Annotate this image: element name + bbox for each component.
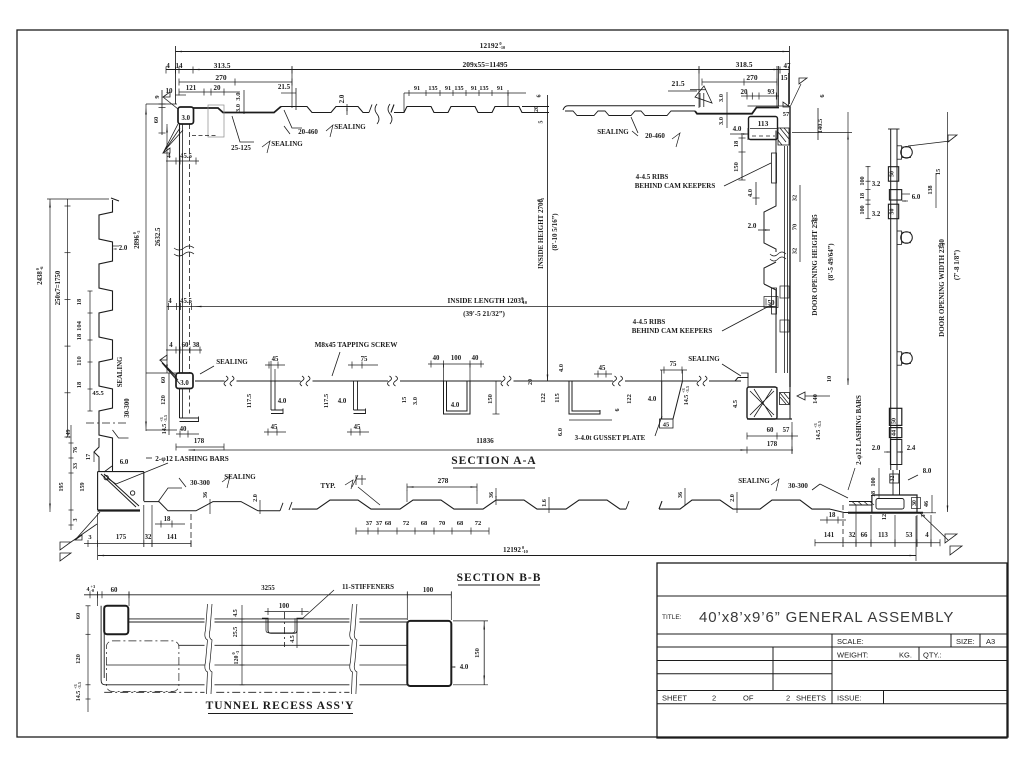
svg-text:1.6: 1.6 (541, 499, 548, 507)
svg-text:150: 150 (487, 394, 494, 404)
svg-text:SEALING: SEALING (271, 140, 303, 148)
svg-text:4.0: 4.0 (558, 364, 565, 372)
svg-text:36: 36 (202, 492, 209, 498)
svg-text:4.0: 4.0 (338, 398, 347, 405)
svg-text:(39'-5 21/32”): (39'-5 21/32”) (463, 310, 505, 318)
top wall corrugation group 2 (391, 105, 549, 113)
svg-text:140: 140 (812, 394, 819, 404)
svg-text:3.0: 3.0 (180, 380, 189, 387)
tunnel lower line (106, 664, 407, 666)
svg-text:12: 12 (881, 514, 888, 520)
svg-text:100: 100 (279, 603, 290, 610)
svg-text:68: 68 (421, 520, 428, 527)
bottom right sill fitting (747, 387, 777, 419)
svg-text:3.0: 3.0 (182, 115, 191, 122)
svg-text:72: 72 (475, 520, 482, 527)
svg-text:2-φ12 LASHING BARS: 2-φ12 LASHING BARS (155, 455, 229, 463)
hinge 3 (897, 352, 902, 365)
svg-text:70: 70 (439, 520, 446, 527)
svg-text:INSIDE HEIGHT 2700: INSIDE HEIGHT 2700 (537, 199, 545, 269)
title block frame (657, 563, 1007, 738)
svg-text:141: 141 (167, 534, 178, 541)
svg-text:100: 100 (423, 587, 434, 594)
inside height extension crossing wall (547, 95, 549, 381)
svg-text:60: 60 (160, 377, 167, 384)
svg-text:4.0: 4.0 (733, 125, 742, 133)
svg-text:175: 175 (116, 534, 127, 541)
corner floor step (144, 502, 280, 511)
svg-text:A3: A3 (986, 637, 995, 646)
svg-text:45: 45 (599, 365, 606, 372)
hinge 1 (897, 146, 902, 159)
svg-text:2.0: 2.0 (252, 494, 259, 502)
svg-text:47: 47 (784, 62, 792, 70)
svg-text:10: 10 (826, 376, 833, 383)
top wall corrugation group 1 (281, 107, 369, 113)
svg-text:SEALING: SEALING (688, 355, 720, 363)
svg-text:2.0: 2.0 (748, 222, 757, 230)
svg-text:120: 120 (160, 395, 167, 405)
svg-text:270: 270 (215, 73, 227, 82)
weld arrow at header seam (690, 89, 706, 91)
svg-text:2.0: 2.0 (339, 94, 346, 103)
side wall into corner (94, 438, 113, 471)
svg-text:37: 37 (366, 520, 373, 527)
svg-text:15: 15 (935, 169, 942, 175)
svg-text:SECTION A-A: SECTION A-A (451, 455, 536, 467)
svg-text:113: 113 (758, 119, 769, 128)
svg-text:3.0: 3.0 (718, 94, 725, 102)
corner diagonal strut (101, 474, 139, 507)
svg-text:40: 40 (433, 355, 440, 362)
top wall group 3 double line (563, 106, 695, 110)
svg-text:SECTION B-B: SECTION B-B (457, 572, 542, 584)
dashdot thru side wall (86, 422, 128, 424)
svg-text:SEALING: SEALING (334, 123, 366, 131)
svg-text:53: 53 (906, 532, 913, 539)
door jamb outer line (789, 108, 791, 388)
cam keeper bracket upper (772, 153, 777, 183)
svg-text:178: 178 (767, 441, 778, 448)
svg-text:135: 135 (454, 85, 463, 92)
gusset trapezoid (662, 381, 683, 419)
dim 100 stiffener (265, 611, 309, 613)
svg-text:SEALING: SEALING (597, 128, 629, 136)
svg-text:(8'-5 49/64”): (8'-5 49/64”) (827, 243, 835, 281)
svg-text:18: 18 (870, 491, 877, 497)
svg-text:68: 68 (457, 520, 464, 527)
svg-text:45.5: 45.5 (180, 298, 192, 305)
svg-text:SEALING: SEALING (216, 358, 248, 366)
svg-text:4: 4 (168, 298, 172, 305)
svg-text:2632.5: 2632.5 (155, 227, 162, 246)
svg-text:3.0: 3.0 (235, 104, 242, 112)
svg-text:18: 18 (829, 512, 836, 519)
svg-text:15: 15 (401, 396, 408, 403)
svg-text:15: 15 (781, 74, 789, 82)
svg-text:4: 4 (167, 153, 171, 160)
right corner sill hatch (849, 502, 872, 506)
svg-text:4: 4 (925, 532, 929, 539)
wall break marks top (375, 104, 379, 124)
svg-text:122: 122 (540, 393, 547, 403)
dim 250x7=1750 (67, 199, 69, 437)
dim 150 right box (483, 621, 485, 685)
svg-text:4-4.5 RIBS: 4-4.5 RIBS (633, 318, 666, 326)
overall bottom dim 12192 (98, 555, 916, 557)
svg-text:-10: -10 (522, 549, 529, 554)
svg-text:91: 91 (445, 85, 451, 92)
svg-text:BEHIND CAM KEEPERS: BEHIND CAM KEEPERS (635, 182, 716, 190)
svg-text:25-125: 25-125 (231, 144, 251, 152)
svg-text:2.0: 2.0 (119, 245, 128, 252)
tunnel top dim line (84, 594, 451, 596)
door sill step (709, 373, 748, 381)
svg-text:60: 60 (767, 427, 774, 434)
svg-text:45: 45 (663, 422, 670, 429)
door opening width dim line (947, 112, 949, 512)
svg-text:57: 57 (783, 427, 790, 434)
bottom corner fitting box 3.0 (176, 373, 193, 389)
svg-text:38: 38 (193, 342, 200, 349)
svg-text:18: 18 (164, 516, 171, 523)
svg-text:100: 100 (859, 176, 866, 185)
svg-text:3.0: 3.0 (718, 117, 725, 125)
svg-text:21.5: 21.5 (278, 83, 291, 91)
svg-text:57: 57 (783, 111, 790, 118)
hinge 1 weld leader (908, 141, 950, 146)
svg-text:318.5: 318.5 (736, 60, 753, 69)
bottom rail below box (179, 389, 181, 419)
svg-text:20: 20 (528, 379, 534, 385)
corner fitting box (98, 472, 144, 510)
svg-text:14.5: 14.5 (816, 430, 822, 441)
section B-B corrugation (292, 500, 626, 509)
svg-text:3255: 3255 (261, 585, 275, 592)
hinge strip bars (890, 129, 892, 390)
svg-text:11836: 11836 (476, 437, 494, 445)
svg-text:17: 17 (85, 454, 92, 460)
svg-text:50: 50 (890, 171, 896, 177)
svg-text:117.5: 117.5 (246, 393, 253, 408)
svg-text:TUNNEL RECESS ASS'Y: TUNNEL RECESS ASS'Y (206, 700, 355, 712)
corner rivets (104, 475, 108, 479)
svg-text:195: 195 (58, 482, 65, 491)
section B-B start tick (289, 502, 292, 510)
svg-text:32: 32 (792, 195, 799, 202)
tunnel left corner casting (104, 606, 128, 635)
svg-text:40’x8’x9’6” GENERAL ASSEMBLY: 40’x8’x9’6” GENERAL ASSEMBLY (699, 609, 954, 626)
sealing 25-125 label (232, 116, 254, 142)
svg-text:3.0: 3.0 (235, 92, 242, 100)
svg-text:SIZE:: SIZE: (956, 637, 975, 646)
dim 121 20 row left (179, 91, 240, 93)
svg-text:11-STIFFENERS: 11-STIFFENERS (342, 583, 394, 591)
post break marks (174, 246, 194, 256)
svg-text:91: 91 (414, 85, 420, 92)
svg-text:250x7=1750: 250x7=1750 (55, 270, 62, 305)
tunnel right box (407, 621, 451, 686)
tunnel hidden dashdot rect (106, 641, 178, 692)
svg-text:115: 115 (554, 393, 561, 403)
svg-text:209x55=11495: 209x55=11495 (462, 60, 507, 69)
strip box 50 upper (888, 167, 898, 182)
svg-text:18: 18 (76, 333, 83, 340)
svg-text:150: 150 (474, 648, 481, 658)
svg-text:18: 18 (859, 193, 866, 199)
svg-text:DOOR OPENING HEIGHT 2585: DOOR OPENING HEIGHT 2585 (811, 214, 819, 316)
svg-text:135: 135 (428, 85, 437, 92)
jamb small plates (780, 286, 789, 298)
svg-text:21.5: 21.5 (671, 79, 684, 88)
dim 14.5 right sill (813, 420, 822, 440)
title block h-lines (657, 595, 1007, 597)
hinge bar lower part (890, 390, 892, 470)
svg-text:DOOR OPENING WIDTH 2340: DOOR OPENING WIDTH 2340 (938, 239, 946, 337)
svg-text:141: 141 (824, 532, 835, 539)
svg-text:14.5: 14.5 (162, 424, 168, 435)
floor channel A (271, 381, 283, 414)
svg-text:BEHIND CAM KEEPERS: BEHIND CAM KEEPERS (632, 327, 713, 335)
svg-text:117.5: 117.5 (323, 393, 330, 408)
labels 30 46 3 (912, 498, 921, 509)
weld flags right corner (920, 513, 948, 540)
tunnel top rails (128, 618, 407, 620)
svg-text:100: 100 (451, 355, 462, 362)
svg-text:150: 150 (733, 162, 740, 172)
svg-text:100: 100 (859, 205, 866, 214)
svg-text:6.0: 6.0 (120, 459, 129, 466)
svg-text:70: 70 (792, 224, 799, 231)
svg-text:SEALING: SEALING (117, 356, 124, 387)
svg-text:75: 75 (670, 361, 677, 368)
dim 278 (407, 486, 477, 488)
svg-text:6.0: 6.0 (912, 194, 921, 201)
wave into right corner (830, 509, 849, 512)
svg-text:33: 33 (72, 463, 79, 469)
svg-text:2896: 2896 (134, 235, 141, 249)
svg-text:122: 122 (626, 394, 633, 404)
svg-text:4.5: 4.5 (732, 399, 739, 408)
svg-text:-3.5: -3.5 (817, 420, 822, 428)
svg-text:10: 10 (166, 87, 174, 95)
weld flags top left corner (163, 92, 170, 97)
svg-text:4: 4 (169, 342, 173, 349)
svg-text:20-460: 20-460 (298, 128, 318, 136)
svg-text:6: 6 (537, 95, 543, 98)
svg-text:8.0: 8.0 (923, 468, 932, 475)
svg-text:46: 46 (923, 501, 930, 507)
svg-text:32: 32 (849, 532, 856, 539)
svg-text:68: 68 (385, 520, 392, 527)
dash hinge line top left (192, 135, 216, 137)
svg-text:278: 278 (438, 477, 449, 485)
svg-text:SHEETS: SHEETS (796, 694, 826, 703)
svg-text:ISSUE:: ISSUE: (837, 694, 862, 703)
svg-text:4.0: 4.0 (451, 402, 460, 409)
svg-text:66: 66 (861, 532, 868, 539)
svg-text:36: 36 (677, 492, 684, 498)
inside height text (536, 197, 545, 269)
svg-text:2-φ12 LASHING BARS: 2-φ12 LASHING BARS (856, 395, 863, 465)
dim 270 left row (179, 81, 292, 83)
section B-B wave right group (659, 500, 830, 509)
svg-text:91: 91 (497, 85, 503, 92)
svg-text:104: 104 (76, 320, 83, 331)
svg-text:36: 36 (488, 492, 495, 498)
stiffener channel (262, 618, 303, 633)
svg-text:6.0: 6.0 (557, 428, 564, 436)
svg-text:313.5: 313.5 (214, 61, 231, 70)
jamb break squiggle (770, 252, 786, 261)
weld flags bottom far left (75, 535, 82, 540)
svg-text:QTY.:: QTY.: (923, 651, 942, 660)
svg-text:60: 60 (182, 342, 189, 349)
svg-text:12192: 12192 (480, 41, 499, 50)
inside length dim (167, 306, 777, 308)
svg-text:2.4: 2.4 (907, 445, 916, 452)
strip middle block (889, 190, 901, 200)
corner fitting box 113 right (749, 117, 778, 140)
svg-text:121: 121 (186, 84, 197, 92)
svg-text:72: 72 (403, 520, 410, 527)
dim 2896 left (145, 104, 147, 431)
svg-text:3.2: 3.2 (872, 211, 881, 218)
svg-text:30-300: 30-300 (788, 482, 808, 490)
svg-text:2.0: 2.0 (729, 494, 736, 502)
door opening height dim line (847, 112, 849, 385)
svg-text:-3.5: -3.5 (163, 414, 168, 422)
svg-text:30-300: 30-300 (124, 398, 131, 418)
svg-text:4.0: 4.0 (747, 189, 754, 197)
svg-text:3.0: 3.0 (412, 397, 419, 405)
svg-text:4: 4 (87, 587, 90, 593)
svg-text:2438: 2438 (37, 271, 44, 285)
svg-text:120: 120 (75, 654, 82, 664)
svg-text:-3.5: -3.5 (77, 681, 82, 689)
svg-text:100: 100 (870, 477, 877, 486)
svg-text:4.0: 4.0 (278, 398, 287, 405)
svg-text:SHEET: SHEET (662, 694, 687, 703)
svg-text:32: 32 (792, 248, 799, 255)
svg-text:4-4.5 RIBS: 4-4.5 RIBS (636, 173, 669, 181)
tunnel bottom line (105, 684, 407, 686)
svg-text:45.5: 45.5 (180, 153, 192, 160)
svg-text:5: 5 (539, 121, 545, 124)
dim 2438 far left (49, 199, 51, 512)
svg-text:3.2: 3.2 (872, 181, 881, 188)
svg-text:4.5: 4.5 (233, 609, 239, 617)
svg-text:40: 40 (472, 355, 479, 362)
svg-text:18: 18 (76, 381, 83, 388)
svg-text:TITLE:: TITLE: (662, 614, 682, 621)
weld flag top right (783, 102, 790, 107)
svg-text:270: 270 (746, 73, 758, 82)
door header thick (695, 108, 779, 114)
svg-text:-10: -10 (521, 300, 528, 305)
svg-text:4.5: 4.5 (290, 635, 296, 643)
svg-text:TYP.: TYP. (320, 482, 335, 490)
svg-text:50: 50 (890, 209, 896, 215)
svg-text:SEALING: SEALING (738, 477, 770, 485)
svg-text:18: 18 (733, 140, 740, 147)
svg-text:4.0: 4.0 (460, 664, 469, 671)
svg-text:KG.: KG. (899, 651, 912, 660)
corner fitting box 3.0 top left (178, 107, 194, 124)
dim 91 135 ticks (404, 92, 526, 94)
svg-text:2: 2 (712, 694, 716, 703)
svg-text:SEALING: SEALING (224, 473, 256, 481)
dim 209x55=11495 row (166, 69, 789, 71)
svg-text:113: 113 (878, 532, 888, 539)
svg-text:12192: 12192 (503, 546, 521, 554)
jamb mid lines (784, 146, 786, 373)
svg-text:60: 60 (111, 587, 118, 594)
svg-text:32: 32 (145, 534, 152, 541)
svg-text:2.0: 2.0 (872, 445, 881, 452)
svg-text:50: 50 (891, 418, 898, 424)
svg-text:178: 178 (194, 438, 205, 445)
svg-text:60: 60 (75, 613, 82, 620)
svg-text:-10: -10 (499, 45, 506, 50)
svg-text:45.5: 45.5 (92, 390, 104, 397)
svg-text:20: 20 (214, 84, 222, 92)
svg-text:3-4.0t GUSSET PLATE: 3-4.0t GUSSET PLATE (575, 434, 646, 442)
door jamb inner line (764, 131, 776, 253)
dim line 11836 (189, 449, 794, 451)
floor tub 4.0 (444, 381, 471, 414)
svg-text:138: 138 (927, 185, 934, 194)
tunnel left edge (101, 606, 105, 685)
right corner fitting (848, 495, 917, 513)
svg-text:-3.5: -3.5 (685, 385, 690, 393)
floor channel B (354, 381, 366, 414)
svg-text:60: 60 (153, 117, 160, 124)
svg-text:INSIDE LENGTH 12031: INSIDE LENGTH 12031 (447, 297, 524, 305)
svg-text:14.5: 14.5 (76, 691, 82, 702)
svg-text:2: 2 (786, 694, 790, 703)
svg-text:120: 120 (234, 656, 240, 665)
svg-text:93: 93 (768, 88, 776, 96)
tunnel hidden dashdot bottom (104, 691, 356, 693)
svg-text:159: 159 (79, 482, 86, 491)
svg-text:44: 44 (891, 430, 898, 436)
strip box 50 lower (888, 204, 898, 219)
svg-text:50: 50 (768, 299, 776, 307)
side wall corrugated profile (99, 198, 119, 470)
svg-text:40: 40 (180, 426, 187, 433)
jamb corner hatch top (778, 128, 789, 145)
cam keeper bracket lower (772, 288, 777, 314)
sealing 20-460 label left (284, 110, 302, 128)
faint door header rect (208, 105, 224, 137)
svg-text:30: 30 (912, 500, 918, 506)
svg-text:6: 6 (614, 408, 621, 411)
lashing bars leader (116, 463, 168, 484)
label 50 boxed jamb (764, 297, 778, 308)
svg-text:4: 4 (166, 62, 170, 70)
svg-text:OF: OF (743, 694, 754, 703)
svg-text:37: 37 (376, 520, 383, 527)
svg-text:110: 110 (76, 356, 83, 365)
svg-text:(7'-8 1/8”): (7'-8 1/8”) (953, 249, 961, 280)
svg-text:WEIGHT:: WEIGHT: (837, 651, 868, 660)
dim 270 right row (702, 81, 777, 83)
svg-text:(8'-10 5/16”): (8'-10 5/16”) (551, 213, 559, 251)
door opening height text (810, 214, 819, 316)
hinge 2 (897, 231, 902, 244)
svg-text:30-300: 30-300 (190, 479, 210, 487)
